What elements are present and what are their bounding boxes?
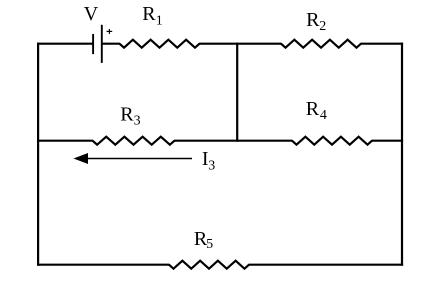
svg-text:5: 5 [206,237,213,252]
svg-text:2: 2 [319,19,326,34]
svg-text:R: R [306,98,320,120]
svg-text:R: R [142,3,156,25]
svg-text:V: V [84,3,99,25]
svg-text:1: 1 [156,14,163,29]
svg-text:4: 4 [320,108,327,123]
svg-text:3: 3 [208,158,215,173]
svg-text:3: 3 [134,114,141,129]
svg-text:R: R [120,104,134,126]
svg-text:R: R [306,9,320,31]
